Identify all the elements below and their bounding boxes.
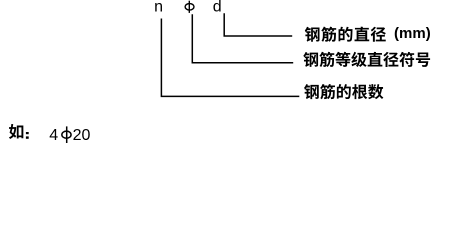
wire from d to first label bbox=[224, 13, 292, 36]
caption: 如 (e.g.) bbox=[9, 124, 23, 139]
label: 钢筋的直径 (rebar diameter) bbox=[305, 27, 386, 42]
svg-text:n: n bbox=[154, 0, 163, 16]
svg-text:20: 20 bbox=[73, 127, 91, 144]
svg-text:4: 4 bbox=[49, 127, 58, 144]
wire from n to third label bbox=[161, 19, 299, 97]
label: 钢筋等级直径符号 (rebar grade/diameter symbol) bbox=[303, 52, 430, 67]
svg-text:d: d bbox=[213, 0, 222, 16]
example phi symbol bbox=[62, 126, 71, 143]
svg-text:(mm): (mm) bbox=[394, 25, 431, 42]
symbol phi (grade/diameter sign), drawn as ellipse + stem bbox=[185, 1, 194, 13]
caption fullwidth colon dots bbox=[26, 132, 29, 139]
label: 钢筋的根数 (number of rebars) bbox=[304, 84, 383, 99]
wire from phi to second label bbox=[192, 14, 293, 63]
